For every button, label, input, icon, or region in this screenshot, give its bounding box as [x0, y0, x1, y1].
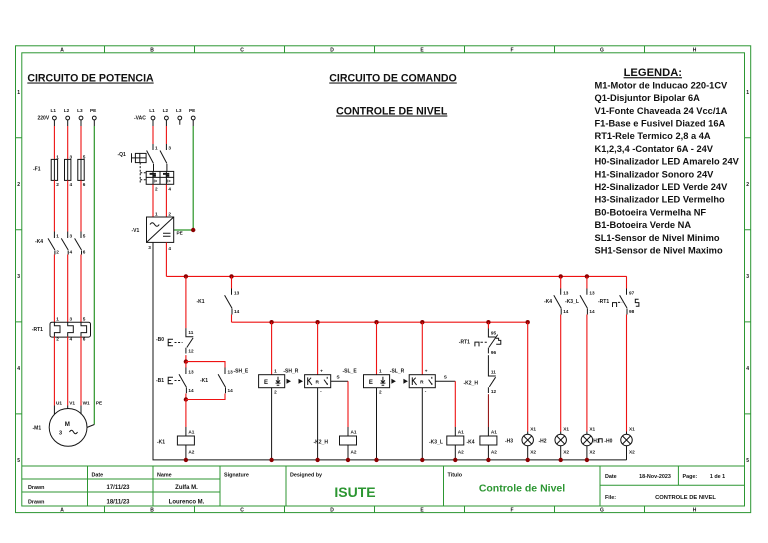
- svg-text:PE: PE: [96, 401, 102, 406]
- svg-text:K1,2,3,4 -Contator 6A - 24V: K1,2,3,4 -Contator 6A - 24V: [595, 144, 714, 154]
- wire bus1: [166, 275, 626, 277]
- wire K2_H coil to 0V: [347, 445, 349, 460]
- svg-text:X2: X2: [530, 450, 536, 455]
- svg-text:6: 6: [83, 182, 86, 187]
- svg-text:-H3: -H3: [505, 439, 513, 445]
- svg-text:-K3_L: -K3_L: [565, 299, 579, 305]
- svg-text:-K4: -K4: [467, 440, 475, 446]
- svg-text:G: G: [600, 508, 604, 514]
- svg-text:-M1: -M1: [33, 426, 42, 432]
- junction 0V H2: [559, 458, 563, 462]
- wire K4 to RT1: [54, 255, 81, 323]
- svg-text:PE: PE: [177, 231, 183, 236]
- svg-text:CONTROLE DE NIVEL: CONTROLE DE NIVEL: [336, 106, 448, 118]
- svg-text:5: 5: [17, 458, 20, 464]
- svg-text:13: 13: [228, 370, 234, 375]
- svg-text:L2: L2: [163, 108, 169, 113]
- svg-text:RT1-Rele Termico 2,8 a 4A: RT1-Rele Termico 2,8 a 4A: [595, 131, 711, 141]
- svg-text:X1: X1: [530, 427, 536, 432]
- wire bus1 to K3_L contact: [586, 276, 588, 288]
- svg-text:5: 5: [83, 154, 86, 159]
- svg-text:H2-Sinalizador LED Verde 24V: H2-Sinalizador LED Verde 24V: [595, 182, 729, 192]
- wire RT1 aux to K2_H contact: [487, 355, 489, 367]
- svg-text:G: G: [600, 47, 604, 53]
- contact RT1 95/96 NC thermal: [459, 329, 501, 356]
- contactor K4 main contacts: [35, 232, 86, 255]
- wire node to B1: [185, 362, 187, 368]
- svg-text:B: B: [150, 508, 154, 514]
- svg-text:17/11/23: 17/11/23: [106, 485, 130, 491]
- junction 0V K2_H: [346, 458, 350, 462]
- svg-text:CIRCUITO DE POTENCIA: CIRCUITO DE POTENCIA: [27, 73, 154, 85]
- svg-text:-SL_R: -SL_R: [390, 369, 405, 375]
- svg-text:D: D: [330, 508, 334, 514]
- svg-text:F1-Base e Fusivel Diazed 16A: F1-Base e Fusivel Diazed 16A: [595, 119, 726, 129]
- svg-text:S: S: [337, 375, 340, 380]
- wire L1 to Q1: [152, 126, 154, 144]
- pushbutton B0 NC: [156, 328, 194, 353]
- svg-text:Signature: Signature: [224, 472, 249, 478]
- svg-text:4: 4: [168, 187, 171, 192]
- svg-text:R: R: [420, 379, 424, 385]
- svg-text:Page:: Page:: [683, 474, 698, 480]
- svg-text:A1: A1: [351, 430, 357, 435]
- svg-text:1: 1: [56, 154, 59, 159]
- wire B1 to seal bottom node: [185, 394, 187, 400]
- contact K2_H NC: [464, 368, 497, 395]
- svg-text:F: F: [510, 47, 513, 53]
- junction bus1 K1: [229, 274, 233, 278]
- wire bus2 to SH_E: [271, 322, 273, 375]
- svg-text:3: 3: [168, 146, 171, 151]
- svg-text:W1: W1: [83, 401, 90, 406]
- wire K4 coil to 0V: [487, 445, 489, 460]
- svg-text:6: 6: [83, 250, 86, 255]
- svg-text:Q1-Disjuntor Bipolar 6A: Q1-Disjuntor Bipolar 6A: [595, 93, 701, 103]
- svg-text:L3: L3: [176, 108, 182, 113]
- svg-text:-RT1: -RT1: [598, 299, 609, 305]
- junction 0V K3_L: [453, 458, 457, 462]
- svg-text:-K2_H: -K2_H: [314, 440, 329, 446]
- svg-text:C: C: [240, 47, 244, 53]
- junction 0V SH_E: [269, 458, 273, 462]
- svg-text:Drawn: Drawn: [28, 499, 44, 505]
- svg-text:Designed by: Designed by: [290, 472, 322, 478]
- svg-text:-RT1: -RT1: [459, 340, 470, 346]
- wire SL_R to 0V: [421, 388, 423, 460]
- junction bus1 K4: [559, 274, 563, 278]
- svg-text:13: 13: [234, 291, 240, 296]
- wire 0V rail: [153, 242, 627, 460]
- svg-text:A2: A2: [351, 450, 357, 455]
- svg-text:11: 11: [491, 370, 496, 375]
- wire SH_R S output: [331, 375, 348, 437]
- svg-text:-H2: -H2: [539, 439, 547, 445]
- junction 0V K4: [486, 458, 490, 462]
- svg-text:Date: Date: [605, 474, 617, 480]
- svg-text:L1: L1: [51, 108, 57, 113]
- svg-text:S: S: [444, 375, 447, 380]
- svg-text:14: 14: [228, 388, 234, 393]
- sensor electrode SH_E: [234, 369, 285, 395]
- svg-text:H0-Sinalizador LED Amarelo 24V: H0-Sinalizador LED Amarelo 24V: [595, 157, 740, 167]
- fuse F1: [33, 154, 86, 187]
- svg-text:2: 2: [17, 182, 20, 188]
- svg-text:V1: V1: [69, 401, 75, 406]
- svg-text:PE: PE: [90, 108, 96, 113]
- svg-text:-SL_E: -SL_E: [343, 369, 358, 375]
- svg-text:B0-Botoeira Vermelha NF: B0-Botoeira Vermelha NF: [595, 207, 707, 217]
- wire L2 to F1: [67, 126, 69, 159]
- svg-text:-SH_R: -SH_R: [283, 369, 298, 375]
- svg-text:File:: File:: [605, 495, 616, 501]
- svg-text:A2: A2: [458, 450, 464, 455]
- svg-text:3: 3: [70, 317, 73, 322]
- svg-text:Name: Name: [157, 472, 172, 478]
- svg-text:97: 97: [629, 291, 635, 296]
- power supply terminals 220V: [38, 108, 97, 126]
- svg-text:L2: L2: [64, 108, 70, 113]
- svg-text:3: 3: [746, 274, 749, 280]
- lamp H3: [505, 427, 536, 460]
- svg-text:Lourenco M.: Lourenco M.: [169, 499, 205, 505]
- svg-text:12: 12: [491, 389, 497, 394]
- wire K3_L contact to H1: [586, 315, 588, 432]
- wire SH_E to 0V: [271, 388, 273, 460]
- svg-text:2: 2: [746, 182, 749, 188]
- svg-text:X2: X2: [629, 450, 635, 455]
- svg-text:E: E: [264, 380, 268, 386]
- svg-text:2: 2: [274, 390, 277, 395]
- svg-text:96: 96: [491, 350, 497, 355]
- svg-text:C: C: [240, 508, 244, 514]
- lamp H2: [539, 427, 570, 460]
- svg-text:1: 1: [56, 234, 59, 239]
- svg-text:SH1-Sensor de Nivel Maximo: SH1-Sensor de Nivel Maximo: [595, 246, 723, 256]
- junction 0V SH_R: [315, 458, 319, 462]
- svg-text:1: 1: [155, 146, 158, 151]
- svg-text:4: 4: [70, 337, 73, 342]
- svg-text:-Q1: -Q1: [118, 152, 127, 158]
- junction bus2 SL_R: [420, 320, 424, 324]
- contact K4 aux NO: [544, 289, 569, 315]
- svg-text:A: A: [60, 47, 64, 53]
- wire B0 to node: [185, 355, 187, 362]
- sensor relay SL_R: [390, 369, 436, 394]
- svg-text:R: R: [316, 379, 320, 385]
- motor terminal labels: [56, 401, 102, 406]
- svg-text:-RT1: -RT1: [32, 327, 43, 333]
- svg-text:2: 2: [168, 212, 171, 217]
- wire K4 contact to H2: [560, 315, 562, 432]
- svg-text:1: 1: [379, 369, 382, 374]
- svg-text:D: D: [330, 47, 334, 53]
- junction 0V K1: [184, 458, 188, 462]
- svg-text:V1-Fonte Chaveada 24 Vcc/1A: V1-Fonte Chaveada 24 Vcc/1A: [595, 106, 728, 116]
- svg-text:-VAC: -VAC: [134, 116, 146, 122]
- svg-text:3: 3: [70, 154, 73, 159]
- svg-text:A1: A1: [458, 430, 464, 435]
- title block: [22, 466, 745, 506]
- svg-text:-K4: -K4: [544, 299, 552, 305]
- svg-text:-K1: -K1: [197, 299, 205, 305]
- wire RT1 to motor: [54, 336, 81, 405]
- wire K1 contact to bus2: [231, 315, 233, 323]
- svg-text:+: +: [320, 369, 323, 374]
- svg-text:X1: X1: [589, 427, 595, 432]
- junction bus2 RT1: [486, 320, 490, 324]
- svg-text:18-Nov-2023: 18-Nov-2023: [639, 474, 671, 480]
- contact K1 seal-in NO: [200, 368, 233, 394]
- svg-text:F: F: [510, 508, 513, 514]
- svg-text:-K1: -K1: [157, 440, 165, 446]
- svg-text:M: M: [65, 421, 70, 428]
- svg-text:A: A: [60, 508, 64, 514]
- wire RT1 97 to H0: [626, 315, 628, 432]
- wire to K1 coil: [185, 400, 187, 428]
- svg-text:Drawn: Drawn: [28, 485, 44, 491]
- svg-text:14: 14: [188, 388, 194, 393]
- wire Q1 to V1: [153, 185, 166, 218]
- wire F1 to K4: [54, 180, 81, 231]
- section titles: [27, 73, 456, 118]
- svg-text:X1: X1: [563, 427, 569, 432]
- svg-text:Date: Date: [92, 472, 104, 478]
- svg-text:I>: I>: [154, 179, 158, 184]
- svg-text:CIRCUITO DE COMANDO: CIRCUITO DE COMANDO: [329, 73, 457, 85]
- wire L2 to Q1: [165, 126, 167, 144]
- buzzer H1: [581, 427, 600, 460]
- svg-text:2: 2: [56, 337, 59, 342]
- wire bus2 to SL_R: [421, 322, 423, 375]
- svg-text:ISUTE: ISUTE: [334, 484, 375, 500]
- junction 0V H3: [526, 458, 530, 462]
- svg-text:U1: U1: [56, 401, 62, 406]
- svg-text:3: 3: [17, 274, 20, 280]
- svg-text:1 de 1: 1 de 1: [710, 474, 725, 480]
- junction bus1 B0: [184, 274, 188, 278]
- svg-text:E: E: [369, 380, 373, 386]
- wire bus2: [232, 321, 528, 323]
- svg-text:Controle de Nivel: Controle de Nivel: [479, 483, 565, 495]
- svg-text:H1-Sinalizador Sonoro 24V: H1-Sinalizador Sonoro 24V: [595, 169, 715, 179]
- svg-text:-K1: -K1: [200, 378, 208, 384]
- wire SL_R S output: [435, 375, 455, 437]
- svg-text:SL1-Sensor de Nivel Minimo: SL1-Sensor de Nivel Minimo: [595, 233, 720, 243]
- svg-text:-K3_L: -K3_L: [429, 440, 443, 446]
- PE hook into motor: [87, 425, 95, 428]
- wire bus2 to RT1 aux: [487, 322, 489, 328]
- svg-text:4: 4: [168, 246, 171, 251]
- svg-text:13: 13: [188, 370, 194, 375]
- svg-text:12: 12: [188, 349, 194, 354]
- svg-text:L1: L1: [149, 108, 155, 113]
- svg-text:5: 5: [83, 234, 86, 239]
- svg-text:1: 1: [274, 369, 277, 374]
- svg-text:95: 95: [491, 331, 497, 336]
- wire seal branch top: [186, 362, 225, 368]
- junction bus2 SH_E: [269, 320, 273, 324]
- svg-text:H: H: [693, 47, 697, 53]
- svg-text:13: 13: [589, 291, 595, 296]
- svg-text:18/11/23: 18/11/23: [106, 499, 130, 505]
- junction bus2 SH_R: [315, 320, 319, 324]
- svg-text:3: 3: [148, 245, 151, 250]
- svg-text:PE: PE: [189, 108, 195, 113]
- svg-text:1: 1: [56, 317, 59, 322]
- contact K3_L aux NO: [565, 289, 595, 315]
- coil K1: [157, 430, 195, 455]
- svg-text:4: 4: [17, 366, 20, 372]
- svg-text:X1: X1: [629, 427, 635, 432]
- wire PE power: [93, 126, 95, 425]
- svg-text:B: B: [150, 47, 154, 53]
- svg-text:4: 4: [70, 250, 73, 255]
- svg-text:11: 11: [188, 330, 193, 335]
- svg-text:2: 2: [379, 390, 382, 395]
- svg-text:B1-Botoeira Verde NA: B1-Botoeira Verde NA: [595, 220, 692, 230]
- svg-text:5: 5: [746, 458, 749, 464]
- svg-text:Zulfa M.: Zulfa M.: [175, 485, 198, 491]
- svg-text:A2: A2: [188, 450, 194, 455]
- svg-text:3: 3: [59, 431, 62, 437]
- svg-text:-B1: -B1: [156, 378, 164, 384]
- wire +24V to bus1: [165, 242, 167, 276]
- contact K1 NO: [197, 289, 240, 315]
- junction node seal top: [184, 359, 188, 363]
- svg-text:+: +: [425, 369, 428, 374]
- svg-text:-B0: -B0: [156, 337, 164, 343]
- wire SH_R to 0V: [317, 388, 319, 460]
- motor terminal stubs: [54, 406, 81, 415]
- legend: [595, 67, 740, 255]
- wire K2_H contact to K4 coil: [487, 394, 489, 427]
- svg-text:4: 4: [746, 366, 749, 372]
- power supply V1: [132, 212, 183, 252]
- svg-text:14: 14: [563, 309, 569, 314]
- thermal relay RT1 power element: [32, 317, 91, 342]
- svg-text:H3-Sinalizador LED Vermelho: H3-Sinalizador LED Vermelho: [595, 195, 726, 205]
- junction bus1 K3_L: [585, 274, 589, 278]
- svg-text:Titulo: Titulo: [448, 472, 463, 478]
- coil K2_H: [314, 430, 357, 455]
- svg-text:220V: 220V: [38, 116, 50, 122]
- coil K3_L: [429, 430, 464, 455]
- wire L1 to F1: [53, 126, 55, 159]
- wire bus2 to H3: [527, 322, 529, 431]
- svg-text:L3: L3: [77, 108, 83, 113]
- svg-text:13: 13: [563, 291, 569, 296]
- svg-text:98: 98: [629, 309, 635, 314]
- svg-text:2: 2: [155, 187, 158, 192]
- coil K4: [467, 430, 498, 455]
- svg-text:I>: I>: [167, 179, 171, 184]
- wire K3_L coil to 0V: [454, 445, 456, 460]
- svg-text:6: 6: [83, 337, 86, 342]
- svg-text:M1-Motor de Inducao 220-1CV: M1-Motor de Inducao 220-1CV: [595, 80, 729, 90]
- wire L3 to F1: [80, 126, 82, 159]
- svg-text:-H0: -H0: [604, 439, 612, 445]
- wire bus1 to K4 contact: [560, 276, 562, 288]
- wire bus2 to SL_E: [376, 322, 378, 375]
- contact RT1 97/98: [598, 276, 639, 314]
- wire bus1 to B0: [185, 276, 187, 328]
- junction 0V H1: [585, 458, 589, 462]
- svg-text:14: 14: [589, 309, 595, 314]
- svg-text:1: 1: [17, 90, 20, 96]
- svg-text:3: 3: [70, 234, 73, 239]
- svg-text:2: 2: [56, 182, 59, 187]
- wire bus2 to SH_R: [317, 322, 319, 375]
- junction bus2 SL_E: [374, 320, 378, 324]
- svg-text:-SH_E: -SH_E: [234, 369, 249, 375]
- svg-text:LEGENDA:: LEGENDA:: [624, 67, 682, 79]
- svg-text:1: 1: [746, 90, 749, 96]
- svg-text:A2: A2: [491, 450, 497, 455]
- svg-text:14: 14: [234, 309, 240, 314]
- svg-text:H: H: [693, 508, 697, 514]
- svg-text:A1: A1: [188, 430, 194, 435]
- wire bus1 to K1 contact: [231, 276, 233, 288]
- motor M1: [33, 409, 88, 447]
- svg-text:5: 5: [83, 317, 86, 322]
- sensor electrode SL_E: [343, 369, 390, 395]
- link arrows SL: [391, 379, 408, 384]
- junction 0V SL_R: [420, 458, 424, 462]
- junction seal bottom: [184, 397, 188, 401]
- wire PE command: [174, 126, 194, 230]
- svg-text:X2: X2: [589, 450, 595, 455]
- link arrows SH: [287, 379, 304, 384]
- lamp H0: [599, 427, 635, 460]
- svg-text:X2: X2: [563, 450, 569, 455]
- command supply terminals -VAC: [134, 108, 195, 126]
- sensor relay SH_R: [283, 369, 330, 394]
- wire SL_E to 0V: [376, 388, 378, 460]
- svg-text:4: 4: [70, 182, 73, 187]
- breaker Q1: [118, 144, 174, 192]
- junction bus2 H3: [526, 320, 530, 324]
- svg-text:A1: A1: [491, 430, 497, 435]
- wire seal branch bottom: [186, 394, 225, 400]
- svg-text:2: 2: [56, 250, 59, 255]
- svg-text:CONTROLE DE NIVEL: CONTROLE DE NIVEL: [655, 495, 716, 501]
- junction 0V SL_E: [374, 458, 378, 462]
- wire K1 coil to 0V: [185, 445, 187, 460]
- svg-text:-V1: -V1: [132, 228, 140, 234]
- junction PE at V1: [191, 228, 195, 232]
- pushbutton B1 NO: [156, 368, 194, 394]
- svg-text:-K2_H: -K2_H: [464, 381, 479, 387]
- svg-text:-K4: -K4: [35, 239, 43, 245]
- svg-text:-F1: -F1: [33, 167, 41, 173]
- svg-text:1: 1: [155, 212, 158, 217]
